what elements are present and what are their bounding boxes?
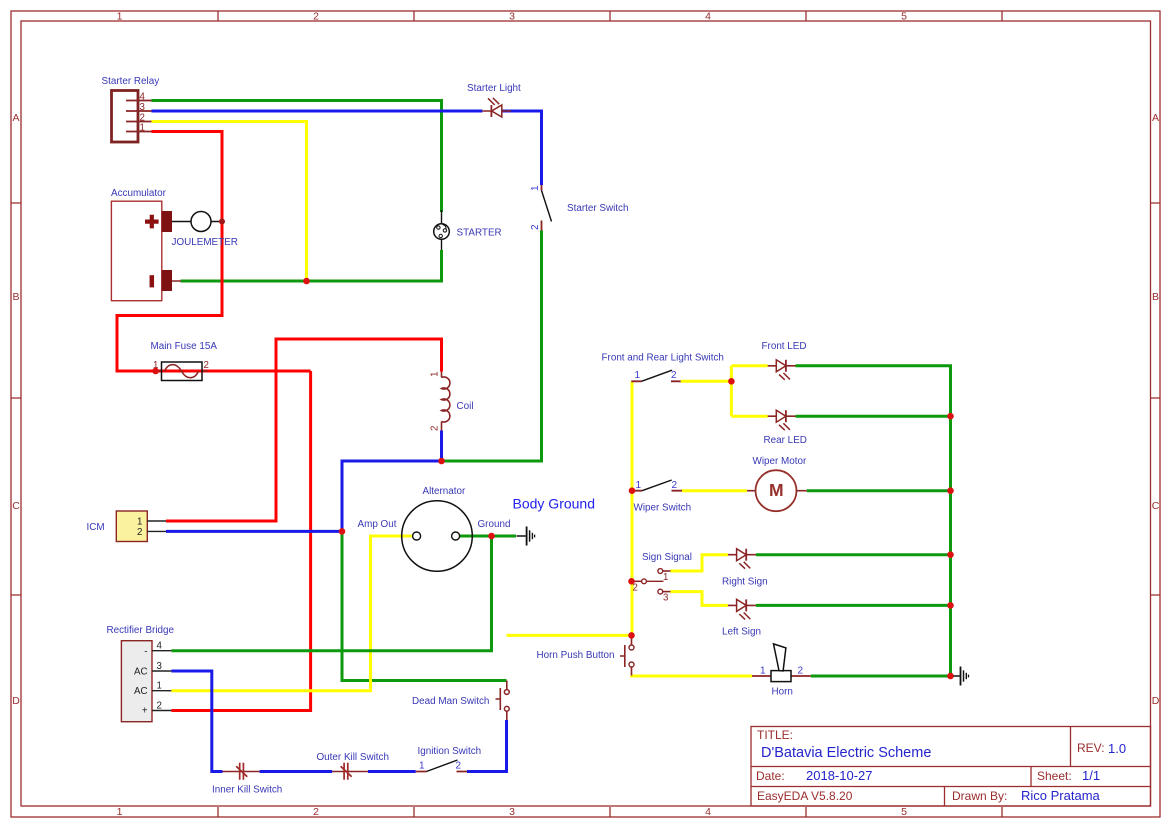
svg-text:2: 2 bbox=[313, 806, 319, 818]
svg-text:C: C bbox=[1152, 500, 1160, 512]
svg-text:-: - bbox=[144, 647, 147, 658]
junction sign signal pin2 bbox=[628, 578, 635, 585]
dead man switch bbox=[412, 681, 509, 721]
svg-text:AC: AC bbox=[134, 667, 147, 678]
svg-text:1/1: 1/1 bbox=[1082, 768, 1100, 783]
junction joulemeter / red wire bbox=[219, 219, 225, 225]
wire ICM pin1 red up to coil top bbox=[166, 339, 442, 521]
wire green junction down to dead man switch bbox=[342, 531, 507, 680]
svg-text:4: 4 bbox=[140, 91, 146, 102]
svg-text:Sheet:: Sheet: bbox=[1037, 769, 1072, 783]
svg-text:TITLE:: TITLE: bbox=[757, 728, 793, 742]
wire yellow sign signal pin3 to left sign LED bbox=[671, 592, 729, 606]
svg-text:B: B bbox=[1152, 291, 1159, 303]
svg-text:A: A bbox=[12, 112, 19, 124]
svg-text:5: 5 bbox=[901, 806, 907, 818]
svg-text:Date:: Date: bbox=[756, 769, 785, 783]
svg-text:Right Sign: Right Sign bbox=[722, 577, 768, 588]
svg-text:EasyEDA V5.8.20: EasyEDA V5.8.20 bbox=[757, 789, 853, 803]
wire green alternator ground bbox=[460, 535, 516, 538]
junction rail left sign bbox=[947, 602, 954, 609]
svg-text:2: 2 bbox=[633, 583, 638, 594]
svg-text:3: 3 bbox=[509, 11, 515, 23]
svg-text:Drawn By:: Drawn By: bbox=[952, 789, 1007, 803]
svg-text:D: D bbox=[12, 695, 20, 707]
wire blue rectifier pin3 to kill switches bbox=[171, 671, 506, 772]
svg-text:2: 2 bbox=[313, 11, 319, 23]
body ground symbol bbox=[517, 527, 535, 546]
right sign LED bbox=[722, 549, 768, 588]
svg-text:Sign Signal: Sign Signal bbox=[642, 552, 692, 563]
main fuse 15A bbox=[151, 341, 218, 381]
svg-text:A: A bbox=[1152, 112, 1159, 124]
svg-text:3: 3 bbox=[663, 593, 668, 604]
svg-text:Wiper Switch: Wiper Switch bbox=[634, 503, 692, 514]
wire yellow to horn push button junction bbox=[507, 634, 632, 637]
joulemeter bbox=[172, 212, 238, 249]
svg-text:Starter Light: Starter Light bbox=[467, 83, 521, 94]
svg-text:2: 2 bbox=[672, 480, 678, 491]
wire relay pin1 red to main fuse bbox=[117, 132, 311, 372]
svg-text:2: 2 bbox=[456, 761, 462, 772]
svg-text:Alternator: Alternator bbox=[423, 486, 467, 497]
junction rail rear LED bbox=[947, 413, 954, 420]
starter switch bbox=[530, 185, 628, 231]
alternator bbox=[358, 486, 511, 571]
svg-text:1: 1 bbox=[530, 185, 541, 191]
svg-text:2: 2 bbox=[204, 360, 209, 371]
svg-text:1: 1 bbox=[663, 572, 668, 583]
junction rail right sign bbox=[947, 551, 954, 558]
svg-text:D: D bbox=[1152, 695, 1160, 707]
starter light LED bbox=[467, 83, 521, 117]
wire yellow light switch pin2 to front and rear LEDs bbox=[681, 366, 768, 416]
svg-text:3: 3 bbox=[157, 661, 162, 672]
svg-text:REV:: REV: bbox=[1077, 741, 1105, 755]
horn bbox=[752, 644, 811, 698]
svg-text:3: 3 bbox=[140, 102, 145, 113]
svg-text:1: 1 bbox=[117, 11, 123, 23]
svg-text:4: 4 bbox=[705, 11, 711, 23]
svg-text:2: 2 bbox=[671, 370, 677, 381]
svg-text:Horn: Horn bbox=[772, 687, 793, 698]
junction light switch yellow bbox=[728, 378, 735, 385]
svg-text:1: 1 bbox=[419, 761, 425, 772]
svg-text:4: 4 bbox=[705, 806, 711, 818]
svg-text:STARTER: STARTER bbox=[457, 228, 502, 239]
svg-text:Ignition Switch: Ignition Switch bbox=[418, 746, 482, 757]
junction fuse pin1 bbox=[152, 368, 159, 375]
wire green left sign LED to rail bbox=[756, 604, 951, 607]
wire green right sign LED to rail bbox=[756, 553, 951, 556]
wire green wiper motor to rail bbox=[807, 489, 951, 492]
svg-text:Horn Push Button: Horn Push Button bbox=[537, 650, 615, 661]
junction rail horn ground bbox=[947, 673, 954, 680]
svg-text:1: 1 bbox=[430, 372, 441, 377]
rectifier bridge bbox=[107, 625, 175, 722]
wire green alternator ground down to rectifier pin4 bbox=[171, 536, 491, 651]
wire relay pin2 yellow down to green junction bbox=[152, 122, 307, 282]
svg-text:Inner Kill Switch: Inner Kill Switch bbox=[212, 785, 282, 796]
outer kill switch bbox=[317, 752, 389, 780]
ignition switch bbox=[416, 746, 481, 772]
svg-text:Rear LED: Rear LED bbox=[764, 435, 807, 446]
wire yellow alternator amp out to rectifier pin1 bbox=[171, 536, 412, 691]
left sign LED bbox=[722, 599, 761, 637]
wire ICM pin2 blue to junction bbox=[166, 530, 342, 533]
svg-text:Amp Out: Amp Out bbox=[358, 519, 397, 530]
svg-text:Coil: Coil bbox=[457, 401, 474, 412]
svg-text:4: 4 bbox=[157, 641, 163, 652]
wire coil bottom blue to junction and down bbox=[342, 431, 442, 532]
svg-text:Body Ground: Body Ground bbox=[513, 496, 596, 512]
sign signal selector switch bbox=[632, 552, 692, 604]
wire fuse to rectifier plus red bbox=[171, 371, 310, 711]
svg-text:Main Fuse 15A: Main Fuse 15A bbox=[151, 341, 218, 352]
junction yellow to green bbox=[303, 278, 310, 285]
svg-text:2: 2 bbox=[530, 224, 541, 230]
wire yellow bus light switch pin1 down to horn push button bbox=[631, 381, 634, 635]
svg-text:Accumulator: Accumulator bbox=[111, 188, 167, 199]
wire green horn pin2 to rail ground bbox=[811, 675, 951, 678]
wiper switch bbox=[632, 480, 691, 514]
ICM module bbox=[87, 511, 167, 542]
wire relay pin4 green: relay to starter to accumulator negative bbox=[152, 101, 442, 282]
svg-text:ICM: ICM bbox=[87, 522, 105, 533]
junction wiper switch pin1 bbox=[629, 487, 636, 494]
svg-text:JOULEMETER: JOULEMETER bbox=[172, 237, 238, 248]
starter relay connector bbox=[102, 76, 160, 142]
front and rear light switch bbox=[602, 353, 724, 382]
chassis ground at horn rail bbox=[954, 667, 969, 686]
wire green rear LED to rail bbox=[796, 415, 951, 418]
svg-text:Front LED: Front LED bbox=[762, 341, 807, 352]
svg-text:D'Batavia Electric Scheme: D'Batavia Electric Scheme bbox=[761, 745, 931, 761]
svg-text:1.0: 1.0 bbox=[1108, 741, 1126, 756]
svg-text:1: 1 bbox=[635, 370, 641, 381]
svg-text:1: 1 bbox=[157, 681, 162, 692]
svg-text:1: 1 bbox=[140, 122, 145, 133]
svg-text:1: 1 bbox=[760, 666, 766, 677]
svg-text:Rico Pratama: Rico Pratama bbox=[1021, 788, 1101, 803]
svg-text:2018-10-27: 2018-10-27 bbox=[806, 768, 873, 783]
junction horn push button bbox=[628, 632, 635, 639]
wire green coil junction to starter switch pin2 bbox=[442, 231, 542, 462]
svg-text:B: B bbox=[12, 291, 19, 303]
junction alternator ground bbox=[488, 533, 495, 540]
svg-text:Starter Switch: Starter Switch bbox=[567, 203, 628, 214]
svg-text:2: 2 bbox=[430, 426, 441, 431]
svg-text:Left Sign: Left Sign bbox=[722, 627, 761, 638]
accumulator battery bbox=[111, 188, 181, 301]
coil inductor bbox=[430, 372, 474, 432]
wire yellow horn push button to horn pin1 bbox=[632, 674, 753, 677]
svg-text:Wiper Motor: Wiper Motor bbox=[753, 456, 807, 467]
junction blue to green below ICM bbox=[339, 528, 346, 535]
svg-text:Rectifier Bridge: Rectifier Bridge bbox=[107, 625, 175, 636]
svg-text:M: M bbox=[769, 480, 784, 500]
svg-text:2: 2 bbox=[137, 527, 142, 538]
svg-text:C: C bbox=[12, 500, 20, 512]
rear LED bbox=[764, 410, 807, 446]
starter motor bbox=[434, 210, 502, 250]
svg-text:Front and Rear Light Switch: Front and Rear Light Switch bbox=[602, 353, 724, 364]
svg-text:Dead Man Switch: Dead Man Switch bbox=[412, 696, 489, 707]
svg-text:Outer Kill Switch: Outer Kill Switch bbox=[317, 752, 389, 763]
inner kill switch bbox=[212, 763, 282, 796]
wire yellow sign signal pin1 to right sign LED bbox=[671, 555, 729, 571]
svg-text:3: 3 bbox=[509, 806, 515, 818]
svg-text:Starter Relay: Starter Relay bbox=[102, 76, 160, 87]
front LED bbox=[762, 341, 807, 380]
svg-text:Ground: Ground bbox=[478, 519, 511, 530]
svg-text:2: 2 bbox=[157, 700, 162, 711]
svg-text:5: 5 bbox=[901, 11, 907, 23]
svg-text:1: 1 bbox=[636, 480, 642, 491]
wire yellow wiper switch pin2 to wiper motor bbox=[682, 489, 747, 492]
junction rail wiper motor bbox=[947, 487, 954, 494]
junction coil blue green bbox=[438, 458, 445, 465]
svg-text:+: + bbox=[142, 706, 148, 717]
svg-text:2: 2 bbox=[798, 666, 804, 677]
svg-text:AC: AC bbox=[134, 686, 147, 697]
svg-text:1: 1 bbox=[117, 806, 123, 818]
wiper motor bbox=[747, 456, 807, 511]
wire green front LED to right rail bbox=[796, 366, 951, 676]
title block bbox=[751, 727, 1151, 807]
wire relay pin3 blue: relay to starter light to starter switch bbox=[152, 111, 542, 185]
horn push button bbox=[537, 637, 635, 676]
